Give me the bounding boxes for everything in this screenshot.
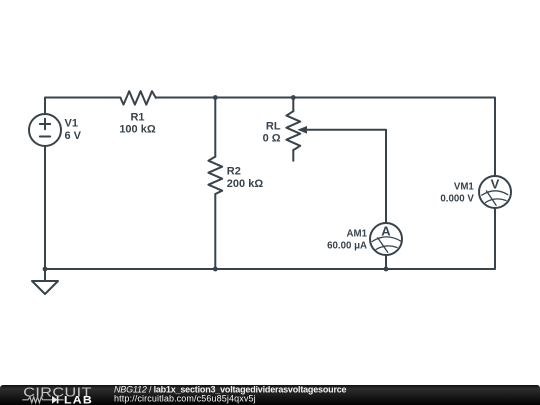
AM1 meter scale outer arc [372, 237, 401, 242]
junction node: AM1 bottom [384, 267, 389, 272]
svg-text:R2: R2 [227, 165, 241, 177]
svg-text:100 kΩ: 100 kΩ [119, 124, 156, 136]
svg-text:V1: V1 [65, 118, 78, 130]
svg-text:AM1: AM1 [347, 228, 368, 239]
voltmeter VM1 [479, 176, 511, 208]
svg-text:200 kΩ: 200 kΩ [227, 178, 264, 190]
svg-text:VM1: VM1 [454, 181, 475, 192]
junction node: ground/V1 bottom [43, 267, 48, 272]
junction node: R2 top [213, 95, 218, 100]
svg-text:6 V: 6 V [65, 130, 82, 142]
wire: AM1 bottom stub [385, 255, 387, 269]
AM1 body circle [370, 223, 402, 255]
wire: R2 top stub [214, 98, 216, 157]
V1 body circle [29, 114, 61, 146]
wire: R2 bottom stub [214, 194, 216, 269]
svg-text:0.000 V: 0.000 V [440, 194, 474, 205]
footer watermark bar [0, 385, 540, 405]
junction node: R2 bottom [213, 267, 218, 272]
logo diode triangle [52, 396, 58, 404]
wire: RL wiper to AM1 top [305, 130, 386, 223]
AM1 meter needle [378, 238, 388, 252]
wire: RL bottom open stub [292, 150, 294, 161]
wire: R1 right terminal across top to VM1 top [156, 98, 495, 177]
V1 plus terminal mark [40, 119, 50, 129]
ammeter AM1 [370, 223, 402, 255]
wire: bottom rail and VM1 bottom [45, 208, 495, 269]
wire: V1 top to R1 left terminal [45, 98, 121, 115]
AM1 meter scale inner arc [376, 246, 397, 250]
svg-text:A: A [381, 224, 391, 239]
ground [32, 269, 58, 294]
RL wiper arrowhead [297, 126, 307, 134]
V1 minus terminal mark [40, 136, 50, 138]
junction node: RL top [291, 95, 296, 100]
svg-text:60.00 μA: 60.00 μA [327, 240, 367, 251]
wire: V1 bottom to ground node [44, 146, 46, 269]
resistor R2 [208, 157, 222, 194]
svg-text:0 Ω: 0 Ω [263, 133, 281, 145]
VM1 meter scale inner arc [486, 199, 507, 203]
resistor R1 [121, 91, 156, 104]
VM1 meter scale outer arc [482, 191, 508, 195]
VM1 meter needle [486, 191, 496, 205]
svg-text:RL: RL [266, 120, 281, 132]
voltage source V1 [29, 114, 61, 146]
svg-text:R1: R1 [130, 111, 144, 123]
VM1 body circle [479, 176, 511, 208]
wire: RL top stub [292, 98, 294, 112]
logo resistor-diode glyph [22, 396, 63, 403]
potentiometer RL body [286, 111, 300, 150]
svg-text:V: V [491, 177, 500, 192]
